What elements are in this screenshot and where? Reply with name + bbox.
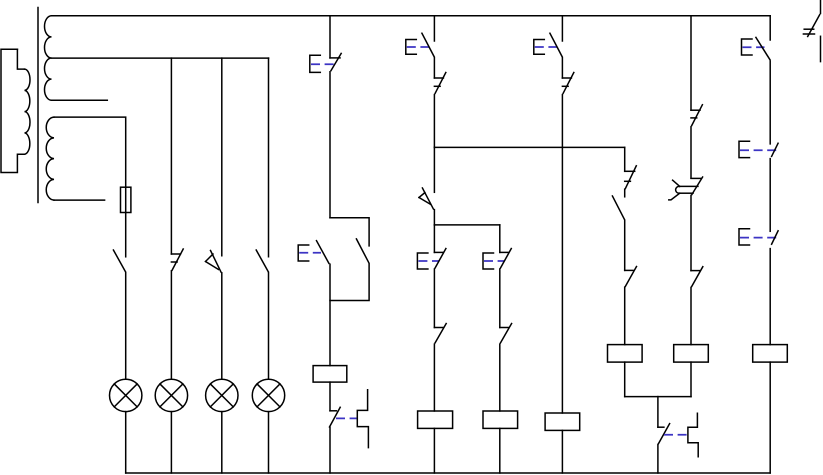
wire: pull switch to node: [433, 210, 435, 225]
switch Q3 (lamp branch 3, pull switch): [206, 251, 222, 273]
wire: coil K1 to contact: [329, 382, 331, 411]
wire: coil K2 to bottom bus: [433, 428, 435, 473]
wire: unused secondary tap stub: [52, 99, 108, 101]
wire: bus tap to switch Q3: [221, 58, 223, 256]
pushbutton S8 NO contact: [772, 143, 779, 156]
wire: contact to coil K2: [433, 344, 435, 411]
contact NC (branch E relay): [625, 267, 637, 287]
wire: top right lower stub: [820, 36, 822, 61]
wire: branch E corner drop: [624, 147, 626, 171]
wire: bus tap to switch Q2: [170, 58, 172, 254]
wire: lamp E1 to bottom bus: [125, 412, 127, 473]
transformer T1 upper secondary winding: [45, 16, 52, 100]
pushbutton S3 NO contact: [422, 33, 434, 56]
relay coil K1: [313, 366, 347, 383]
pushbutton S9 NO contact: [772, 231, 779, 244]
wire: lamp E2 to bottom bus: [170, 412, 172, 473]
wire: horizontal link B-D-E: [434, 146, 624, 148]
mechanical link (dashed, branch A latch): [336, 417, 357, 419]
wire: node to coil K1: [329, 264, 331, 365]
pushbutton S7 NO contact: [756, 37, 770, 59]
wire: coil K6 down to join: [690, 362, 692, 397]
wire: switch Q4 to lamp E4: [268, 273, 270, 380]
transformer T1 core: [37, 8, 39, 203]
wire: branch C drop: [499, 225, 501, 253]
wire: branch D down to coil K4: [561, 95, 563, 413]
wire: contactor contact to NC relay contact: [690, 195, 692, 270]
wire: top bus drop branch A: [329, 16, 331, 58]
mechanical link S5 (dashed): [484, 260, 504, 262]
wire: coil K7 to bottom bus: [769, 362, 771, 473]
wire: top bus drop branch D: [561, 16, 563, 41]
pushbutton S9 NO (branch G lower) actuator: [739, 229, 750, 245]
pushbutton S4 NC contact: [434, 249, 446, 269]
wire: horizontal link B-C: [434, 224, 499, 226]
wire: lower secondary bottom stub: [54, 199, 105, 201]
wire: top bus L1: [52, 15, 771, 17]
lamp E3: [206, 379, 238, 411]
switch Q2 (lamp branch 2, latched contact): [171, 249, 183, 270]
transformer T1 primary winding: [1, 49, 30, 172]
relay coil K2: [418, 411, 453, 428]
contact NC (branch C relay): [500, 324, 512, 343]
mechanical link (dashed, branch F latch): [664, 434, 687, 436]
pushbutton S2 NO (branch A) actuator: [298, 245, 309, 261]
wire: contact to coil K3: [499, 344, 501, 411]
contact (branch F latched NC): [691, 105, 702, 126]
pushbutton S5 NC contact: [500, 249, 512, 269]
wire: branch A to bottom bus: [329, 427, 331, 473]
pushbutton S1 NC contact: [330, 53, 341, 70]
wire: lamp E4 to bottom bus: [268, 412, 270, 473]
switch Q1 (lamp branch 1): [113, 250, 125, 272]
switch Q4 (lamp branch 4): [256, 250, 268, 272]
pushbutton S5 NC (branch C) actuator: [483, 253, 494, 269]
wire: S3 to latched contact: [433, 58, 435, 78]
wire: node to pushbutton S4: [433, 225, 435, 253]
contact (branch E latched NC): [625, 166, 637, 189]
mechanical link S9 (dashed): [740, 237, 777, 239]
wire: join node down to NC contact: [657, 397, 659, 428]
wire: switch Q1 to lamp E1: [125, 273, 127, 380]
pushbutton S6 NO (branch D top) actuator: [534, 40, 545, 55]
wire: NC contact to bottom bus: [657, 445, 659, 474]
wire: to NC relay contact: [624, 220, 626, 270]
wire: S8 to pushbutton S9: [769, 159, 771, 232]
pushbutton S2 NO contact: [317, 241, 329, 264]
wire: top bus corner down branch G: [769, 16, 771, 40]
wire: bottom bus N: [126, 472, 771, 474]
wire: switch Q2 to lamp E2: [170, 271, 172, 379]
wire: contact to coil K6: [690, 287, 692, 344]
wire: S1 to self-hold node: [329, 72, 331, 218]
wire: join horizontal E-F: [625, 396, 691, 398]
pushbutton S1 NC (branch A top) actuator: [310, 55, 321, 72]
contact NC (branch F relay): [691, 267, 703, 287]
relay coil K5: [608, 345, 643, 363]
contactor contact (branch F): [669, 177, 703, 200]
wire: lower secondary top lead to fuse: [54, 117, 126, 187]
relay coil K6: [674, 345, 709, 363]
wire: switch Q3 to lamp E3: [221, 273, 223, 379]
wire: fuse to switch Q1: [125, 213, 127, 257]
relay coil K3: [483, 411, 518, 428]
pushbutton S7 NO (branch G top) actuator: [742, 39, 753, 55]
lamp E1: [110, 379, 142, 411]
switch (branch B pull switch): [419, 188, 433, 209]
lamp E2: [155, 379, 187, 411]
contact NC (branch F bottom): [658, 424, 670, 444]
pushbutton S3 NO (branch B top) actuator: [406, 40, 417, 55]
contact NC (branch A bottom): [330, 407, 341, 427]
lamp E4: [252, 379, 284, 411]
mechanical link S6 (dashed): [535, 46, 557, 48]
transformer T1 lower secondary winding: [46, 117, 54, 200]
relay coil K4: [545, 413, 580, 430]
latch device (branch F): [688, 413, 698, 456]
mechanical link S1 (dashed): [311, 63, 335, 65]
mechanical link S7 (dashed): [743, 46, 765, 48]
contact NO (branch E): [612, 196, 624, 220]
wire: latched contact to switch: [624, 189, 626, 197]
contact (branch B latched NC): [434, 73, 445, 94]
pushbutton S4 NC (branch B) actuator: [417, 253, 428, 269]
fuse F1: [121, 187, 131, 212]
wire: self-hold branch bottom: [330, 264, 369, 301]
mechanical link S4 (dashed): [418, 260, 438, 262]
wire: contact to coil K5: [624, 287, 626, 344]
wire: latched contact to contactor contact: [690, 127, 692, 178]
wire: S9 to coil K7: [769, 249, 771, 345]
wire: top right stub: [820, 0, 822, 13]
contact (branch D latched NC): [562, 73, 573, 94]
wire: S5 to relay contact: [499, 269, 501, 328]
disconnect contact (top right): [803, 15, 819, 37]
wire: S4 to relay contact: [433, 269, 435, 328]
wire: branch B to cross node: [433, 95, 435, 148]
wire: S6 to latched contact: [561, 58, 563, 78]
wire: coil K4 to bottom bus: [561, 430, 563, 473]
wire: lamp E3 to bottom bus: [221, 412, 223, 473]
wire: node to pull switch: [433, 147, 435, 192]
wire: lamp supply bus from secondary tap: [52, 57, 269, 59]
contact K1 NO (self-holding): [356, 239, 369, 263]
pushbutton S8 NO (branch G mid) actuator: [739, 141, 750, 157]
wire: self-hold branch top: [330, 218, 369, 246]
wire: top bus drop branch F: [690, 16, 692, 110]
mechanical link S2 (dashed): [299, 252, 321, 254]
mechanical link S8 (dashed): [740, 149, 777, 151]
pushbutton S6 NO contact: [550, 33, 562, 56]
wire: coil K3 to bottom bus: [499, 428, 501, 473]
wire: bus corner down to switch Q4: [268, 58, 270, 257]
relay coil K7: [753, 345, 788, 363]
latch device (branch A): [357, 390, 368, 448]
wire: top bus drop branch B: [433, 16, 435, 41]
mechanical link S3 (dashed): [407, 46, 429, 48]
wire: S7 to pushbutton S8: [769, 61, 771, 144]
contact NC (branch B relay): [434, 324, 446, 343]
wire: coil K5 down to join: [624, 362, 626, 397]
